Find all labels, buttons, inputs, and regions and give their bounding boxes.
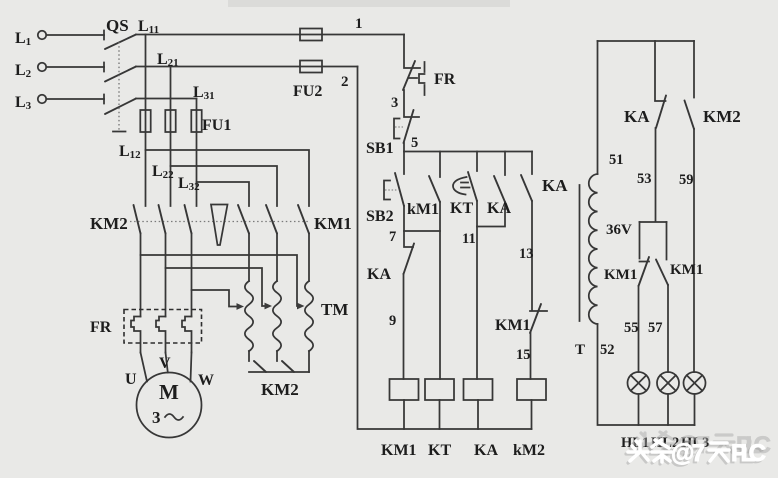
svg-text:KA: KA [624, 107, 650, 126]
svg-text:M: M [159, 380, 179, 404]
svg-text:SB1: SB1 [366, 140, 394, 157]
svg-text:V: V [159, 355, 171, 372]
svg-text:7: 7 [389, 229, 396, 245]
svg-text:KM1: KM1 [604, 267, 637, 283]
svg-text:KA: KA [474, 442, 498, 459]
svg-text:2: 2 [341, 74, 349, 90]
svg-text:FU1: FU1 [202, 117, 231, 134]
svg-text:T: T [575, 342, 585, 358]
svg-text:kM1: kM1 [407, 201, 439, 218]
svg-text:KM2: KM2 [703, 107, 741, 126]
svg-text:@7: @7 [671, 440, 705, 467]
svg-text:KT: KT [450, 200, 473, 217]
svg-text:U: U [125, 371, 137, 388]
svg-text:3: 3 [391, 95, 398, 111]
svg-text:KM2: KM2 [261, 380, 299, 399]
svg-text:36V: 36V [606, 222, 632, 238]
svg-text:SB2: SB2 [366, 208, 394, 225]
svg-text:13: 13 [519, 246, 534, 262]
svg-text:55: 55 [624, 320, 639, 336]
svg-text:57: 57 [648, 320, 663, 336]
svg-text:52: 52 [600, 342, 615, 358]
svg-text:kM2: kM2 [513, 442, 545, 459]
svg-text:TM: TM [321, 300, 348, 319]
svg-text:11: 11 [462, 231, 476, 247]
svg-text:51: 51 [609, 152, 624, 168]
svg-text:FR: FR [90, 319, 112, 336]
svg-text:FU2: FU2 [293, 83, 322, 100]
svg-text:KM1: KM1 [670, 262, 703, 278]
svg-text:KM1: KM1 [314, 214, 352, 233]
svg-text:59: 59 [679, 172, 694, 188]
svg-text:W: W [198, 372, 214, 389]
svg-text:KA: KA [487, 200, 511, 217]
svg-text:3: 3 [152, 408, 161, 427]
svg-text:KM1: KM1 [381, 442, 417, 459]
svg-text:9: 9 [389, 313, 396, 329]
svg-text:KA: KA [542, 176, 568, 195]
svg-text:QS: QS [106, 16, 129, 35]
svg-text:5: 5 [411, 135, 418, 151]
svg-text:KA: KA [367, 266, 391, 283]
svg-text:1: 1 [355, 16, 363, 32]
svg-text:PLC: PLC [731, 440, 766, 467]
svg-text:15: 15 [516, 347, 531, 363]
svg-text:53: 53 [637, 171, 652, 187]
svg-text:KT: KT [428, 442, 451, 459]
svg-text:KM1: KM1 [495, 317, 531, 334]
svg-text:FR: FR [434, 71, 456, 88]
svg-text:KM2: KM2 [90, 214, 128, 233]
